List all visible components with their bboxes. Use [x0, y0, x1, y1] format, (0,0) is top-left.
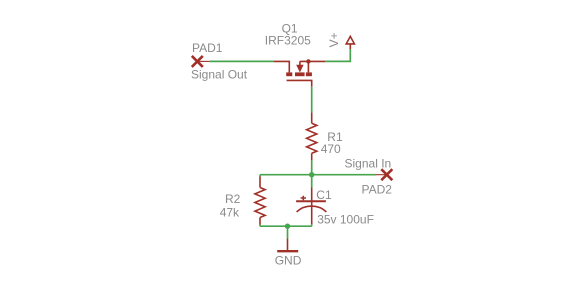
- svg-text:R2: R2: [225, 192, 241, 206]
- wire net gate to R1: [311, 87, 313, 113]
- svg-text:47k: 47k: [220, 205, 240, 219]
- wire net C1 to bottom rail: [311, 224, 313, 226]
- pad PAD1: [192, 56, 210, 67]
- drain pin wire: [274, 61, 290, 72]
- wire net to V+: [325, 49, 350, 61]
- svg-text:35v 100uF: 35v 100uF: [317, 212, 374, 226]
- body arrow head: [296, 65, 303, 73]
- svg-text:V+: V+: [327, 32, 341, 47]
- resistor R1: [307, 112, 317, 160]
- junction dot middle rail: [309, 172, 314, 177]
- svg-text:IRF3205: IRF3205: [265, 33, 311, 47]
- channel bar 1: [286, 72, 292, 76]
- transistor Q1: [274, 61, 325, 86]
- plus mark of C1: [301, 196, 306, 200]
- channel bar 3: [306, 72, 312, 76]
- wire net from PAD1 to Q1 drain: [210, 60, 274, 62]
- resistor R2: [255, 176, 265, 225]
- wire net R2 down corner and bottom rail: [260, 175, 312, 227]
- body arrow shaft and top rail: [300, 61, 325, 72]
- svg-text:PAD2: PAD2: [362, 182, 393, 196]
- pad PAD2: [376, 169, 392, 180]
- svg-text:Signal In: Signal In: [345, 157, 392, 171]
- gate line: [287, 80, 312, 86]
- junction dot bottom rail: [285, 224, 290, 229]
- wire net middle rail to C1: [311, 175, 313, 188]
- supply symbol V+: [346, 36, 354, 49]
- ground: [277, 238, 298, 251]
- svg-text:GND: GND: [275, 254, 302, 268]
- junction dot on Q1 source rail: [306, 59, 310, 63]
- channel bar 2: [295, 72, 305, 76]
- svg-text:C1: C1: [316, 188, 332, 202]
- capacitor C1: [296, 188, 326, 225]
- svg-text:Signal Out: Signal Out: [191, 68, 248, 82]
- svg-text:470: 470: [321, 142, 341, 156]
- wire net GND stem: [287, 226, 289, 238]
- wire middle rail: [260, 174, 376, 176]
- svg-text:PAD1: PAD1: [192, 41, 223, 55]
- wire net R1 to middle rail: [311, 160, 313, 174]
